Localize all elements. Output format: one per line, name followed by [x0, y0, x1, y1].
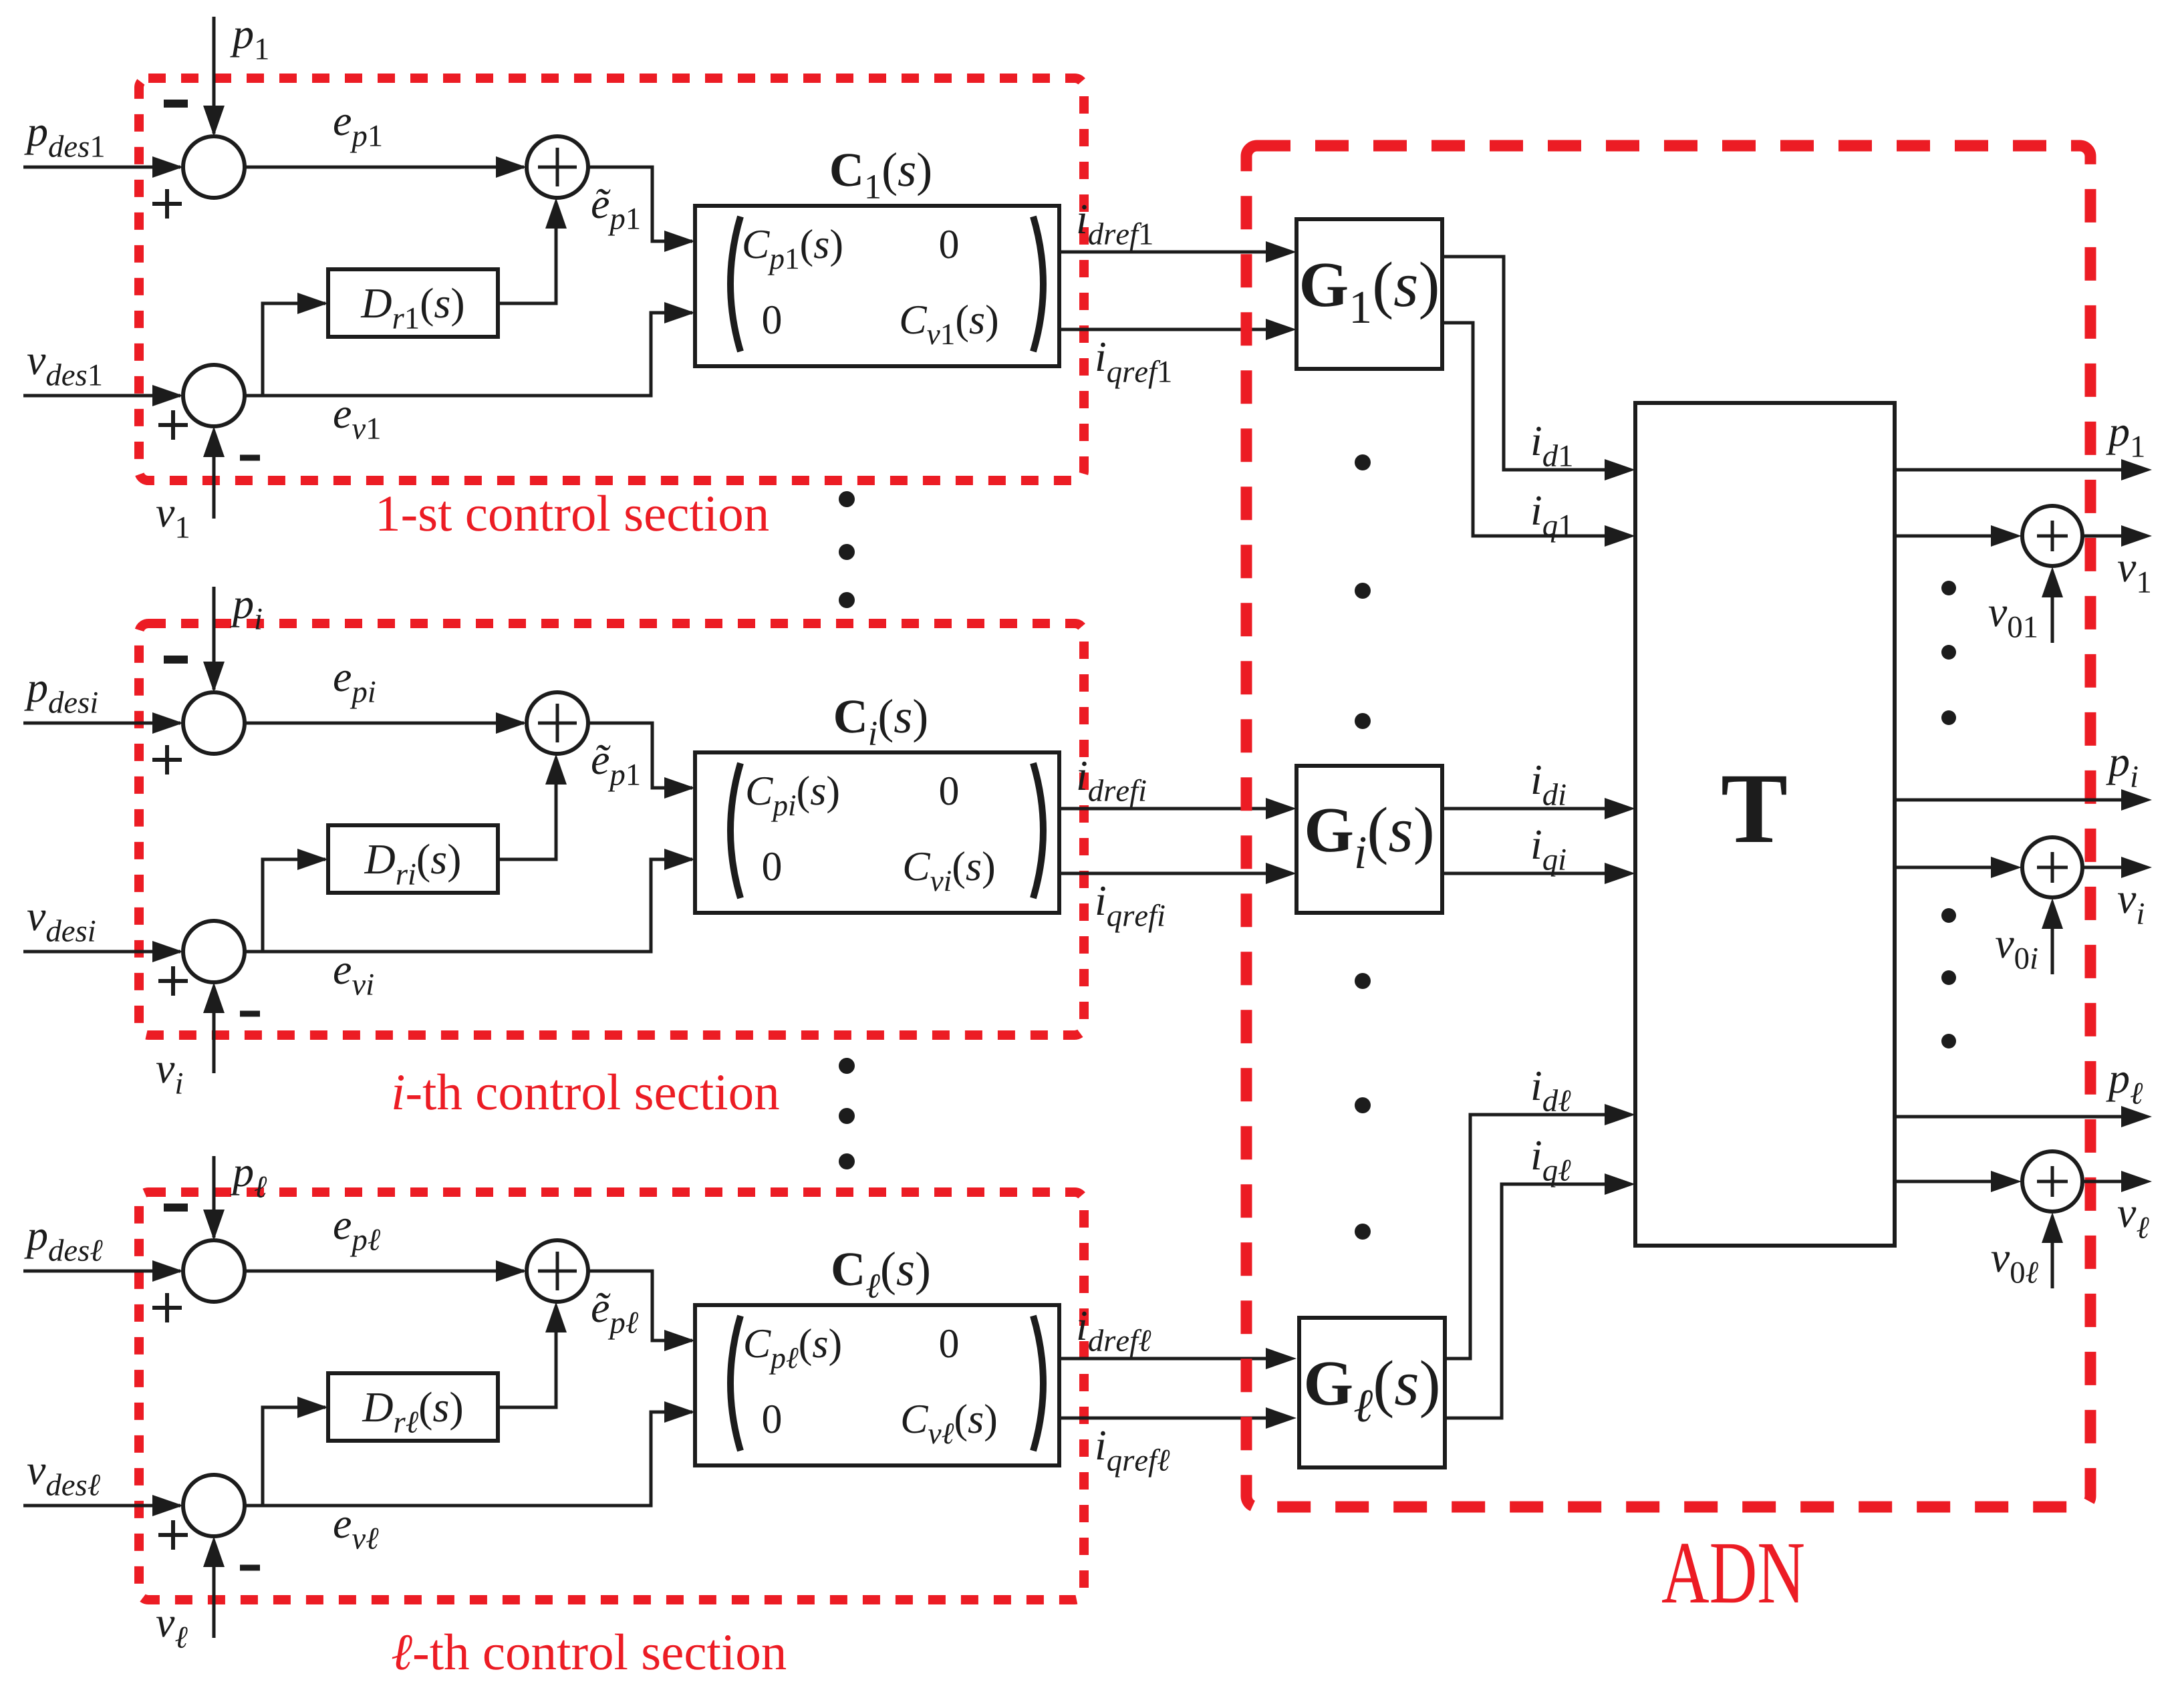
- block G_1(s): [1296, 219, 1442, 369]
- summing junction v-sum out ℓ: [2022, 1151, 2082, 1212]
- wire v_des1 input: [23, 385, 183, 406]
- label minus at p-sum l: [164, 1204, 188, 1212]
- label i_q1: [1533, 497, 1572, 543]
- label vℓ: [156, 1617, 188, 1649]
- label i_dref1: [1079, 205, 1152, 251]
- ellipsis dots between section 1 and i: [839, 491, 855, 608]
- wire p_desi input: [23, 712, 183, 734]
- label e_vℓ: [334, 1518, 378, 1549]
- wire Dri output to plus-sum: [498, 754, 567, 859]
- wire v_desℓ input: [23, 1495, 183, 1516]
- wire vℓ bottom input: [203, 1536, 225, 1638]
- wire e_vi to Ci input 2: [245, 849, 695, 952]
- label minus at p-sum i: [164, 656, 188, 664]
- wire p1 output: [1895, 459, 2152, 480]
- label e_pℓ: [334, 1219, 380, 1257]
- wire p_desℓ input: [23, 1260, 183, 1282]
- wire Dr1 output to plus-sum: [498, 198, 567, 303]
- wire i_q1 from G1 to T: [1442, 323, 1635, 547]
- label p1 output: [2106, 426, 2143, 457]
- ellipsis dots between Gi and Gl: [1355, 973, 1371, 1240]
- wire i_qi from Gi to T: [1442, 863, 1635, 884]
- summing junction plus-sum 1: [527, 136, 588, 198]
- wire vℓ output: [2082, 1171, 2152, 1192]
- block D_r1(s): [328, 269, 498, 337]
- label pℓ: [230, 1166, 267, 1197]
- label minus at v-sum l: [240, 1565, 260, 1571]
- label i_qrefi: [1097, 887, 1165, 933]
- label v_desi: [27, 911, 95, 942]
- label e_v1: [334, 408, 380, 439]
- label section caption l: [392, 1634, 787, 1670]
- wire e_vℓ to Cℓ input 2: [245, 1401, 695, 1506]
- label i_d1: [1533, 427, 1572, 467]
- wire i_dref1: [1059, 241, 1296, 263]
- wire i_qrefℓ: [1059, 1407, 1296, 1429]
- label p_desℓ: [24, 1230, 102, 1261]
- label minus at v-sum i: [240, 1011, 260, 1017]
- label e-tilde_pi: [592, 745, 639, 792]
- label i_drefℓ: [1079, 1312, 1151, 1358]
- summing junction p-sum i: [183, 692, 245, 754]
- summing junction v-sum i: [183, 921, 245, 982]
- label i_dl: [1533, 1072, 1571, 1112]
- wire Drℓ output to plus-sum: [498, 1302, 567, 1407]
- label plus at v-sum i: [158, 966, 188, 996]
- wire v1 bottom input: [203, 426, 225, 519]
- red dashed box: i-th control section: [139, 623, 1084, 1035]
- ellipsis dots right column between vi and vl: [1941, 908, 1956, 1048]
- label p_desi: [24, 682, 98, 713]
- label plus at p-sum l: [152, 1293, 182, 1322]
- summing junction plus-sum l: [527, 1240, 588, 1302]
- wire e_v1 to C1 input 2: [245, 302, 695, 396]
- label e-tilde_pl: [592, 1293, 638, 1340]
- block D_ri(s): [328, 825, 498, 893]
- block C_ℓ(s) matrix: [695, 1305, 1059, 1465]
- wire T to v-sum ℓ: [1895, 1171, 2022, 1192]
- label minus at v-sum 1: [240, 455, 260, 461]
- wire i_di from Gi to T: [1442, 798, 1635, 819]
- label v1 output: [2118, 562, 2150, 593]
- summing junction v-sum 1: [183, 365, 245, 426]
- label v_desℓ: [27, 1465, 100, 1496]
- label v_des1: [27, 355, 101, 386]
- wire plus-sum to C1 input 1: [588, 167, 695, 252]
- label e_vi: [334, 964, 374, 995]
- wire e_p1: [245, 156, 527, 178]
- label plus at p-sum 1: [152, 189, 182, 219]
- block T: [1635, 403, 1895, 1246]
- summing junction v-sum l: [183, 1475, 245, 1536]
- wire vi bottom input: [203, 982, 225, 1073]
- label v_0i: [1996, 938, 2038, 970]
- label ADN: [1662, 1544, 1804, 1602]
- label v_0ℓ: [1992, 1252, 2038, 1284]
- label i_ql: [1533, 1141, 1571, 1187]
- block D_rℓ(s): [328, 1373, 498, 1441]
- wire v-branch to Drℓ: [263, 1397, 328, 1506]
- wire v-branch to Dr1: [263, 293, 328, 396]
- ellipsis dots between section i and l: [839, 1058, 855, 1169]
- label i_qrefℓ: [1097, 1431, 1170, 1477]
- label i_qref1: [1097, 343, 1171, 389]
- block G_i(s): [1296, 766, 1442, 913]
- summing junction plus-sum i: [527, 692, 588, 754]
- label v1: [156, 507, 188, 538]
- label p1: [230, 28, 267, 59]
- red dashed box: 1-st control section: [139, 78, 1084, 480]
- wire pℓ top input: [203, 1156, 225, 1240]
- block C_1(s) matrix: [695, 206, 1059, 366]
- wire p1 top input: [203, 17, 225, 136]
- wire i_ql from Gl to T: [1445, 1173, 1635, 1418]
- label e_pi: [334, 671, 375, 709]
- wire e_pi: [245, 712, 527, 734]
- label i_qi: [1533, 831, 1566, 877]
- wire i_drefi: [1059, 798, 1296, 819]
- label C_ℓ(s) title: [833, 1252, 929, 1298]
- wire v_desi input: [23, 941, 183, 962]
- summing junction v-sum out i: [2022, 837, 2082, 897]
- summing junction p-sum l: [183, 1240, 245, 1302]
- label section caption i: [394, 1074, 779, 1110]
- label vi: [156, 1063, 182, 1094]
- wire i_drefℓ: [1059, 1348, 1296, 1369]
- wire T to v-sum 1: [1895, 525, 2022, 547]
- label vℓ output: [2118, 1208, 2149, 1239]
- label i_drefi: [1079, 762, 1146, 808]
- wire i_dl from Gl to T: [1445, 1104, 1635, 1359]
- label section caption 1: [380, 495, 769, 531]
- summing junction p-sum 1: [183, 136, 245, 198]
- label e_p1: [334, 115, 381, 153]
- label minus at p-sum 1: [164, 100, 188, 108]
- ellipsis dots between G1 and Gi: [1355, 454, 1371, 729]
- wire pi output: [1895, 789, 2152, 811]
- label e-tilde_p1: [592, 189, 639, 236]
- label v_01: [1989, 607, 2037, 638]
- block C_i(s) matrix: [695, 752, 1059, 913]
- red dashed box: ℓ-th control section: [139, 1192, 1084, 1600]
- summing junction v-sum out 1: [2022, 506, 2082, 566]
- label plus at v-sum l: [158, 1520, 188, 1550]
- wire i_qref1: [1059, 319, 1296, 340]
- wire e_pℓ: [245, 1260, 527, 1282]
- label i_di: [1533, 766, 1566, 806]
- wire i_qrefi: [1059, 863, 1296, 884]
- label pi: [230, 598, 261, 629]
- block G_ℓ(s): [1299, 1318, 1445, 1467]
- label pi output: [2106, 756, 2137, 787]
- wire pℓ output: [1895, 1106, 2152, 1127]
- label pℓ output: [2106, 1073, 2143, 1104]
- wire v_0ℓ input: [2042, 1212, 2063, 1288]
- label C_1(s) title: [831, 152, 930, 198]
- wire plus-sum to Cℓ input 1: [588, 1271, 695, 1351]
- ellipsis dots right column between v1 and vi: [1941, 581, 1956, 725]
- label p_des1: [24, 126, 104, 157]
- label vi output: [2118, 893, 2144, 924]
- label plus at v-sum 1: [158, 410, 188, 440]
- wire v_01 input: [2042, 567, 2063, 643]
- wire v-branch to Dri: [263, 849, 328, 952]
- wire T to v-sum i: [1895, 857, 2022, 878]
- wire plus-sum to Ci input 1: [588, 723, 695, 799]
- wire v_0i input: [2042, 898, 2063, 974]
- wire i_d1 from G1 to T: [1442, 257, 1635, 480]
- wire vi output: [2082, 857, 2152, 878]
- red dashed box ADN: [1246, 146, 2090, 1507]
- label C_i(s) title: [835, 699, 926, 745]
- wire v1 output: [2082, 525, 2152, 547]
- wire p_des1 input: [23, 156, 183, 178]
- wire pi top input: [203, 587, 225, 692]
- label plus at p-sum i: [152, 745, 182, 774]
